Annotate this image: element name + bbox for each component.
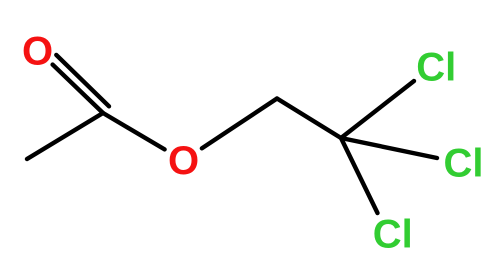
bond C1-CH3 — [27, 113, 103, 159]
bond C3-Cl right — [341, 138, 437, 158]
bond C3-Cl bottom — [341, 138, 378, 213]
bond O2-C2 — [202, 99, 277, 149]
bond C1=O1 line b — [56, 55, 109, 106]
svg-text:Cl: Cl — [373, 213, 413, 257]
bond C1-O2 — [103, 113, 165, 149]
bond C3-Cl top — [341, 81, 414, 138]
svg-text:O: O — [22, 30, 53, 74]
svg-text:O: O — [168, 139, 199, 183]
bond C2-C3 — [277, 99, 341, 139]
svg-text:Cl: Cl — [416, 46, 456, 90]
svg-text:Cl: Cl — [444, 142, 484, 186]
bond C1=O1 line a — [53, 65, 103, 113]
